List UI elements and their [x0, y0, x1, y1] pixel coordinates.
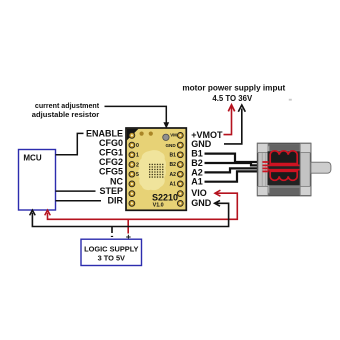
- stray mark: [289, 99, 292, 101]
- motor front plate: [258, 146, 269, 193]
- IC dot grid: [149, 164, 163, 178]
- wire B2: [205, 163, 263, 165]
- svg-text:1: 1: [136, 153, 139, 159]
- coil upper: [270, 151, 297, 164]
- coil lower: [270, 171, 297, 180]
- svg-text:0: 0: [136, 143, 139, 149]
- wire - to logic supply (black): [111, 227, 113, 234]
- pin header right: [177, 133, 183, 207]
- wire ENABLE: [56, 133, 84, 154]
- coil mid bar bottom: [268, 169, 300, 171]
- svg-text:V1.0: V1.0: [153, 202, 164, 208]
- motor shaft: [311, 162, 331, 173]
- motor corner block bottom-left: [258, 186, 269, 195]
- svg-text:CFG0: CFG0: [99, 138, 123, 148]
- svg-text:5: 5: [136, 172, 139, 178]
- wire A2: [205, 168, 263, 172]
- logic supply PS1: [81, 239, 142, 265]
- motor body: [257, 143, 311, 196]
- pin header left: [129, 133, 135, 207]
- coil mid bar top: [268, 164, 300, 166]
- potentiometer (current adjustment): [163, 134, 169, 140]
- motor corner block top-right: [300, 144, 311, 153]
- svg-text:GND: GND: [165, 143, 176, 148]
- svg-text:B1: B1: [169, 153, 176, 159]
- svg-text:STEP: STEP: [99, 186, 123, 196]
- motor lead stubs (red): [263, 161, 269, 163]
- svg-text:adjustable resistor: adjustable resistor: [32, 110, 100, 119]
- wire B1: [205, 154, 263, 162]
- motor rear cap: [301, 146, 311, 193]
- top solder pads: [140, 132, 144, 136]
- svg-text:DIR: DIR: [108, 196, 124, 206]
- wire GND logic (black): [32, 203, 228, 226]
- wire +VMOT to supply (red): [224, 106, 232, 135]
- svg-text:B2: B2: [169, 162, 176, 168]
- wire VIO (red): [48, 193, 238, 219]
- wire DIR: [56, 200, 102, 202]
- motor lamination stack (black center): [268, 151, 300, 185]
- svg-text:VIO: VIO: [191, 188, 207, 198]
- wire + to logic supply (red): [127, 219, 129, 233]
- arrow into VIO (red): [215, 190, 221, 196]
- pin labels right: [191, 130, 223, 208]
- svg-text:A1: A1: [169, 182, 176, 188]
- svg-text:CFG5: CFG5: [99, 167, 123, 177]
- annotation: motor power supply input: [182, 84, 285, 103]
- svg-text:MCU: MCU: [23, 153, 41, 162]
- annotation: current adjustment adjustable resistor: [32, 102, 100, 119]
- driver IC body: [138, 150, 166, 190]
- wire A1: [205, 171, 263, 181]
- wire STEP: [56, 190, 96, 192]
- svg-text:CFG1: CFG1: [99, 148, 123, 158]
- driver board S2210: [126, 128, 186, 210]
- svg-text:CFG2: CFG2: [99, 157, 123, 167]
- motor corner block top-left: [258, 144, 269, 153]
- svg-text:4.5 TO 36V: 4.5 TO 36V: [212, 94, 253, 103]
- arrow into GND (black chevron): [215, 200, 220, 206]
- corner bevel: [127, 129, 139, 141]
- svg-text:VM: VM: [170, 132, 177, 137]
- leader arrow to potentiometer: [105, 106, 167, 124]
- svg-text:2: 2: [136, 162, 139, 168]
- MCU U1: [19, 150, 56, 211]
- svg-text:NC: NC: [110, 176, 123, 186]
- power supply arrow +VMOT (red): [228, 105, 234, 112]
- arrow into MCU (red): [45, 210, 51, 215]
- svg-text:A2: A2: [169, 172, 176, 178]
- stepper motor M1: [257, 143, 331, 196]
- wire GND to supply (black): [224, 109, 242, 144]
- svg-text:3 TO 5V: 3 TO 5V: [98, 253, 125, 262]
- svg-text:current adjustment: current adjustment: [35, 102, 100, 110]
- svg-text:GND: GND: [191, 198, 212, 208]
- svg-text:LOGIC SUPPLY: LOGIC SUPPLY: [84, 244, 138, 253]
- pin labels left: [86, 128, 124, 205]
- svg-text:motor power supply imput: motor power supply imput: [182, 84, 285, 93]
- arrow into MCU (black): [30, 210, 36, 215]
- svg-text:S2210: S2210: [152, 192, 178, 202]
- svg-text:A1: A1: [191, 177, 203, 187]
- motor corner block bottom-right: [300, 186, 311, 195]
- svg-text:ENABLE: ENABLE: [86, 128, 123, 138]
- power supply arrow GND (black chevron): [238, 105, 245, 112]
